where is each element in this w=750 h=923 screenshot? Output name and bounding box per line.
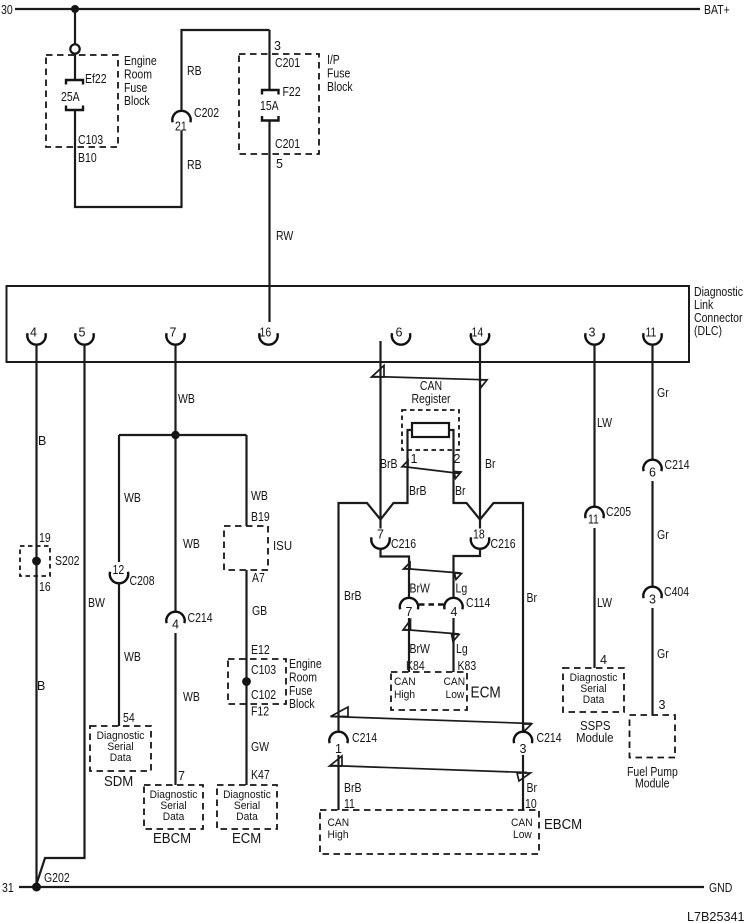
wire from DLC pin 14 bbox=[479, 345, 481, 519]
svg-text:WB: WB bbox=[124, 491, 141, 505]
svg-text:LW: LW bbox=[597, 416, 612, 430]
wire Gr from DLC pin 11 bbox=[651, 345, 653, 461]
SDM Diagnostic Serial Data box bbox=[90, 726, 151, 771]
wire GND rail bbox=[19, 886, 704, 888]
Fuel Pump Module box bbox=[630, 715, 676, 758]
wire RB upper segment bbox=[182, 30, 270, 111]
wire Br funnel to C214 pin 3 bbox=[480, 503, 523, 732]
svg-text:7: 7 bbox=[170, 326, 177, 340]
wire from DLC pin 6 bbox=[379, 341, 381, 518]
svg-text:EBCM: EBCM bbox=[153, 830, 191, 847]
svg-text:Br: Br bbox=[455, 484, 466, 498]
twisted pair marker 1 bbox=[372, 366, 488, 388]
terminating resistor bbox=[412, 423, 449, 437]
DLC pin 5 bbox=[75, 326, 93, 345]
svg-text:11: 11 bbox=[646, 326, 657, 340]
svg-text:EngineRoomFuseBlock: EngineRoomFuseBlock bbox=[124, 54, 157, 108]
svg-text:A7: A7 bbox=[252, 571, 265, 585]
wire register pin 1 bbox=[381, 430, 414, 520]
ground G202 dot bbox=[32, 883, 41, 892]
svg-text:3: 3 bbox=[649, 593, 656, 607]
svg-text:Lg: Lg bbox=[456, 582, 468, 596]
svg-text:BW: BW bbox=[88, 596, 105, 610]
svg-text:CANLow: CANLow bbox=[511, 817, 533, 841]
svg-text:16: 16 bbox=[39, 580, 51, 594]
svg-text:5: 5 bbox=[276, 157, 283, 171]
svg-text:DiagnosticSerialData: DiagnosticSerialData bbox=[150, 789, 198, 823]
ECM Diagnostic Serial Data box bbox=[217, 785, 277, 829]
DLC pin 14 bbox=[471, 326, 489, 345]
wire B from DLC pin 4 bbox=[35, 345, 37, 886]
wire Gr C404 to Fuel Pump bbox=[651, 608, 653, 715]
svg-text:BrW: BrW bbox=[410, 582, 431, 596]
DLC pin 4 bbox=[27, 326, 45, 345]
svg-text:C208: C208 bbox=[130, 574, 155, 588]
svg-text:CANHigh: CANHigh bbox=[394, 676, 416, 701]
svg-text:BrW: BrW bbox=[410, 642, 431, 656]
svg-text:WB: WB bbox=[178, 392, 195, 406]
svg-text:18: 18 bbox=[473, 528, 485, 542]
svg-text:BrB: BrB bbox=[344, 781, 362, 795]
svg-text:RB: RB bbox=[187, 64, 202, 78]
ECM connector C216 pin 18 bbox=[471, 517, 489, 549]
svg-text:EBCM: EBCM bbox=[544, 816, 582, 833]
svg-text:K47: K47 bbox=[251, 768, 270, 782]
svg-text:WB: WB bbox=[124, 650, 141, 664]
wire pin3 to fuse F22 bbox=[268, 30, 270, 90]
svg-text:RW: RW bbox=[276, 229, 293, 243]
wire BrB C214 to EBCM bbox=[337, 755, 339, 810]
wire WB from DLC pin 7 upper bbox=[174, 345, 176, 613]
svg-text:F12: F12 bbox=[251, 705, 269, 719]
svg-text:3: 3 bbox=[274, 39, 281, 53]
wire BrB funnel to C214 pin 1 bbox=[339, 503, 381, 732]
svg-text:Gr: Gr bbox=[657, 647, 669, 661]
EBCM Diagnostic Serial Data box bbox=[144, 785, 203, 829]
svg-text:B: B bbox=[37, 679, 45, 693]
svg-text:3: 3 bbox=[589, 326, 596, 340]
svg-text:DiagnosticSerialData: DiagnosticSerialData bbox=[223, 789, 271, 823]
svg-text:C214: C214 bbox=[188, 611, 213, 625]
svg-text:B19: B19 bbox=[251, 510, 270, 524]
svg-text:GW: GW bbox=[251, 740, 269, 754]
svg-text:19: 19 bbox=[39, 531, 51, 545]
svg-text:Br: Br bbox=[485, 457, 496, 471]
svg-text:C103: C103 bbox=[251, 663, 276, 677]
svg-text:C216: C216 bbox=[391, 537, 416, 551]
svg-text:Module: Module bbox=[576, 730, 614, 745]
connector C404 pin 3 bbox=[643, 587, 661, 607]
wire K84 C114 to ECM bbox=[408, 618, 410, 672]
DLC pin 7 bbox=[166, 326, 184, 345]
ISU box bbox=[224, 526, 268, 570]
wire BAT+ rail bbox=[15, 8, 700, 10]
twisted pair marker 3 bbox=[404, 563, 462, 580]
svg-text:DiagnosticLinkConnector(DLC): DiagnosticLinkConnector(DLC) bbox=[694, 285, 743, 338]
svg-text:Br: Br bbox=[527, 781, 538, 795]
svg-text:C214: C214 bbox=[665, 458, 690, 472]
connector C205 pin 11 bbox=[585, 507, 603, 527]
svg-text:C404: C404 bbox=[664, 585, 689, 599]
svg-text:Br: Br bbox=[527, 591, 538, 605]
connector C114 link bbox=[419, 603, 444, 605]
wire Br C214 to EBCM bbox=[522, 755, 524, 810]
wire LW from DLC pin 3 bbox=[593, 345, 595, 508]
svg-text:WB: WB bbox=[183, 690, 200, 704]
svg-text:L7B25341: L7B25341 bbox=[687, 910, 745, 923]
ECM CAN box bbox=[391, 672, 467, 710]
svg-text:GB: GB bbox=[252, 604, 267, 618]
svg-text:C214: C214 bbox=[352, 731, 377, 745]
svg-text:BAT+: BAT+ bbox=[704, 3, 730, 17]
fuse F22 bbox=[262, 90, 279, 121]
wire BrW C216 to C114 bbox=[381, 549, 410, 598]
splice S202 box bbox=[20, 546, 50, 576]
svg-text:LW: LW bbox=[597, 596, 612, 610]
wire RB lower segment bbox=[180, 131, 182, 208]
svg-text:ECM: ECM bbox=[232, 830, 261, 847]
svg-text:7: 7 bbox=[377, 528, 384, 542]
svg-text:Ef22: Ef22 bbox=[85, 72, 107, 86]
svg-text:30: 30 bbox=[1, 3, 13, 17]
svg-text:C201: C201 bbox=[275, 56, 300, 70]
svg-text:11: 11 bbox=[344, 797, 355, 811]
svg-text:RB: RB bbox=[187, 158, 202, 172]
DLC pin 16 bbox=[259, 326, 277, 345]
connector C214 pin 3 bbox=[514, 732, 532, 756]
svg-text:DiagnosticSerialData: DiagnosticSerialData bbox=[97, 730, 145, 764]
Engine Room Fuse Block 2 box bbox=[228, 659, 286, 704]
svg-text:12: 12 bbox=[113, 563, 125, 577]
svg-text:DiagnosticSerialData: DiagnosticSerialData bbox=[570, 672, 618, 706]
wire K83 C114 to ECM bbox=[452, 618, 454, 672]
connector ring bbox=[70, 44, 79, 53]
svg-text:Gr: Gr bbox=[657, 528, 669, 542]
svg-text:C103: C103 bbox=[78, 133, 103, 147]
wire WB C214 to EBCM bbox=[174, 633, 176, 785]
svg-text:ECM: ECM bbox=[471, 685, 501, 702]
svg-text:K84: K84 bbox=[406, 659, 425, 673]
svg-text:GND: GND bbox=[709, 881, 732, 895]
ECM connector C216 pin 7 bbox=[371, 517, 389, 549]
svg-text:BrB: BrB bbox=[380, 457, 398, 471]
twisted pair marker 2 bbox=[402, 461, 461, 479]
I/P Fuse Block box bbox=[239, 54, 319, 154]
DLC pin 3 bbox=[585, 326, 603, 345]
svg-text:Lg: Lg bbox=[456, 642, 468, 656]
svg-text:B: B bbox=[38, 434, 46, 448]
wire WB right branch to ISU bbox=[245, 435, 247, 526]
wire Lg C216 to C114 bbox=[454, 549, 481, 598]
splice S202 dot bbox=[32, 557, 41, 566]
svg-text:CANHigh: CANHigh bbox=[328, 817, 350, 841]
svg-text:S202: S202 bbox=[55, 554, 80, 568]
svg-text:7: 7 bbox=[178, 769, 185, 783]
connector C214 pin 1 bbox=[329, 732, 347, 756]
svg-text:B10: B10 bbox=[78, 151, 97, 165]
svg-text:BrB: BrB bbox=[344, 589, 362, 603]
svg-text:C114: C114 bbox=[466, 596, 490, 610]
svg-text:4: 4 bbox=[451, 605, 458, 619]
svg-text:CANLow: CANLow bbox=[444, 676, 466, 701]
connector C214 pin 6 bbox=[643, 460, 661, 480]
svg-text:C202: C202 bbox=[194, 106, 219, 120]
svg-text:2: 2 bbox=[454, 452, 461, 466]
svg-text:15A: 15A bbox=[260, 99, 279, 113]
wire Gr C214 to C404 bbox=[651, 481, 653, 587]
connector C208 pin 12 bbox=[110, 563, 128, 583]
svg-text:31: 31 bbox=[2, 881, 14, 895]
DLC pin 6 bbox=[392, 326, 410, 345]
connector C114 pin 7 bbox=[400, 598, 418, 619]
svg-text:G202: G202 bbox=[44, 871, 70, 885]
svg-text:3: 3 bbox=[659, 698, 666, 712]
svg-text:6: 6 bbox=[649, 466, 656, 480]
svg-text:Gr: Gr bbox=[657, 386, 669, 400]
wire WB C208 to SDM bbox=[118, 583, 120, 726]
connector C214 pin 4 (WB) bbox=[166, 612, 184, 632]
svg-text:CANRegister: CANRegister bbox=[411, 379, 450, 406]
svg-text:54: 54 bbox=[123, 711, 135, 725]
twisted pair marker 5 bbox=[331, 707, 533, 732]
svg-text:E12: E12 bbox=[251, 643, 270, 657]
SSPS Diagnostic Serial Data box bbox=[563, 668, 624, 712]
wire register pin 2 bbox=[448, 430, 480, 520]
svg-text:F22: F22 bbox=[283, 85, 301, 99]
DLC pin 11 bbox=[643, 326, 661, 345]
svg-text:5: 5 bbox=[79, 326, 86, 340]
svg-text:I/PFuseBlock: I/PFuseBlock bbox=[327, 53, 353, 94]
wire BW from DLC pin 5 bbox=[37, 345, 85, 885]
connector C114 pin 4 bbox=[444, 598, 462, 619]
svg-text:EngineRoomFuseBlock: EngineRoomFuseBlock bbox=[289, 657, 322, 711]
svg-text:WB: WB bbox=[251, 489, 268, 503]
wire B10 fuse to corner bbox=[75, 110, 183, 207]
junction WB tee bbox=[171, 431, 179, 439]
svg-text:25A: 25A bbox=[61, 90, 80, 104]
svg-text:C214: C214 bbox=[537, 731, 562, 745]
junction on BAT+ rail bbox=[71, 5, 79, 13]
svg-text:C201: C201 bbox=[275, 137, 300, 151]
svg-text:14: 14 bbox=[472, 326, 484, 340]
wire GB ISU to ECM bbox=[245, 570, 247, 785]
svg-text:6: 6 bbox=[396, 326, 403, 340]
connector C202 bbox=[172, 111, 190, 123]
wire RW bbox=[268, 121, 270, 323]
junction C103/C102 bbox=[242, 677, 251, 686]
svg-text:4: 4 bbox=[30, 326, 37, 340]
CAN Register box bbox=[402, 410, 459, 450]
svg-text:1: 1 bbox=[335, 742, 342, 756]
svg-text:7: 7 bbox=[406, 605, 413, 619]
svg-text:K83: K83 bbox=[458, 659, 477, 673]
wire WB left branch bbox=[118, 435, 120, 562]
EBCM CAN box bbox=[320, 810, 539, 854]
wire ring to fuse Ef22 bbox=[74, 54, 76, 81]
svg-text:C216: C216 bbox=[491, 537, 516, 551]
svg-text:WB: WB bbox=[183, 537, 200, 551]
svg-text:C205: C205 bbox=[606, 505, 631, 519]
svg-text:Fuel PumpModule: Fuel PumpModule bbox=[627, 765, 678, 791]
svg-text:3: 3 bbox=[520, 742, 527, 756]
wire LW C205 to SSPS bbox=[593, 528, 595, 668]
svg-text:BrB: BrB bbox=[409, 484, 427, 498]
svg-text:4: 4 bbox=[600, 653, 607, 667]
svg-text:C102: C102 bbox=[251, 688, 276, 702]
Engine Room Fuse Block 1 box bbox=[46, 55, 118, 147]
twisted pair marker 4 bbox=[403, 620, 459, 642]
svg-text:11: 11 bbox=[588, 513, 599, 527]
twisted pair marker 6 bbox=[330, 756, 531, 781]
Diagnostic Link Connector box bbox=[7, 286, 690, 362]
svg-text:SDM: SDM bbox=[104, 773, 133, 790]
svg-text:10: 10 bbox=[525, 797, 537, 811]
fuse Ef22 bbox=[66, 80, 83, 110]
svg-text:ISU: ISU bbox=[273, 538, 292, 553]
svg-text:21: 21 bbox=[175, 120, 187, 134]
wire rail to connector ring bbox=[74, 11, 76, 45]
wire WB tee crossbar bbox=[119, 434, 247, 436]
svg-text:4: 4 bbox=[172, 618, 179, 632]
svg-text:16: 16 bbox=[260, 326, 272, 340]
svg-text:1: 1 bbox=[411, 452, 418, 466]
